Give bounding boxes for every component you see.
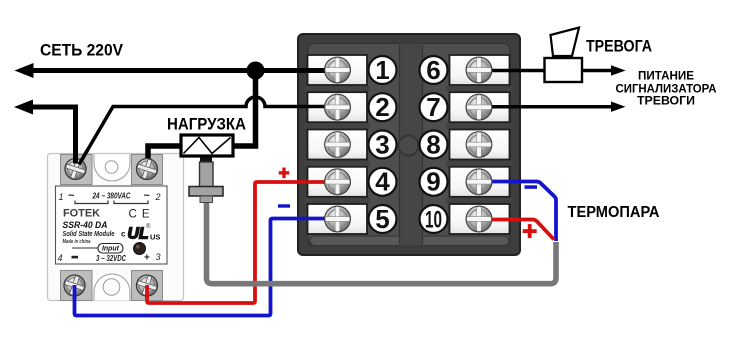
wire end overlay SSR pin4 blue [73, 285, 77, 299]
pin number 1 [369, 55, 397, 85]
svg-text:1: 1 [59, 192, 64, 202]
svg-text:10: 10 [425, 206, 442, 233]
svg-text:US: US [150, 233, 160, 242]
label ПИТАНИЕ СИГНАЛИЗАТОРА ТРЕВОГИ [616, 71, 717, 108]
svg-text:НАГРУЗКА: НАГРУЗКА [167, 116, 246, 134]
screws over stubs [325, 57, 492, 232]
wire: mains L horizontal [26, 68, 311, 73]
svg-text:3 ~ 32VDC: 3 ~ 32VDC [96, 254, 126, 263]
arrow mains N [14, 100, 33, 115]
wire stub terminal 1 [306, 68, 336, 73]
pin number 7 [420, 92, 448, 122]
svg-text:c: c [121, 230, 126, 239]
svg-text:SSR-40 DA: SSR-40 DA [63, 220, 108, 231]
pin number 10 [420, 205, 448, 233]
thermocouple probe [189, 158, 223, 203]
svg-text:9: 9 [426, 167, 440, 197]
center divider [400, 44, 423, 246]
svg-text:1: 1 [375, 55, 389, 85]
wire: thermocouple gray cable [207, 198, 557, 284]
terminal plate 8 [450, 130, 510, 160]
svg-text:3: 3 [156, 252, 161, 262]
pin number 3 [369, 129, 397, 159]
wire: red SSR pin3 to terminal 4 [147, 182, 311, 303]
svg-text:+: + [144, 253, 150, 264]
svg-text:СИГНАЛИЗАТОРА: СИГНАЛИЗАТОРА [616, 84, 717, 96]
pin number 6 [420, 55, 448, 85]
wire: mains N to SSR pin1 [26, 107, 76, 166]
svg-text:7: 7 [426, 92, 440, 122]
svg-text:~: ~ [68, 190, 75, 202]
arrow mains L [15, 63, 34, 78]
wire: thermocouple red to terminal 10 [509, 220, 554, 240]
wire stub terminal 9 [481, 180, 511, 184]
terminal plate 9 [450, 167, 510, 197]
terminal plate 1 [308, 55, 368, 85]
bottom groove [310, 236, 509, 246]
terminal plate 7 [450, 92, 510, 122]
pin number 4 [369, 167, 397, 197]
terminal plate 2 [308, 92, 368, 122]
svg-text:4: 4 [58, 253, 63, 263]
terminal block body [298, 34, 520, 255]
junction dot node [247, 62, 265, 80]
SSR U1 body [48, 154, 184, 301]
svg-text:2: 2 [375, 92, 389, 122]
label + at terminal 10 [523, 224, 537, 238]
svg-text:2: 2 [155, 192, 161, 202]
wire stub terminal 10 [481, 218, 511, 222]
wire: dot to load [232, 71, 258, 147]
svg-text:ПИТАНИЕ: ПИТАНИЕ [638, 71, 694, 83]
svg-text:24 ~ 380VAC: 24 ~ 380VAC [92, 192, 131, 201]
SSR screws pins 1,2,3,4 [63, 157, 88, 182]
wire stub terminal 6 [480, 69, 511, 73]
svg-text:ТЕРМОПАРА: ТЕРМОПАРА [568, 204, 660, 221]
svg-text:СЕТЬ 220V: СЕТЬ 220V [40, 41, 124, 60]
svg-text:3: 3 [375, 129, 389, 159]
wire end overlay SSR pin3 red [145, 285, 149, 299]
svg-text:ТРЕВОГА: ТРЕВОГА [586, 38, 652, 56]
terminal plate 5 [308, 204, 368, 234]
svg-text:Input: Input [102, 244, 119, 253]
wire: load to SSR pin2 [148, 146, 182, 166]
wire: terminal 6 to alarm [506, 69, 612, 73]
center ring [399, 136, 419, 156]
wire stub terminal 4 [307, 180, 336, 184]
svg-text:5: 5 [375, 204, 389, 234]
pin number 5 [369, 204, 397, 234]
wire stub terminal 2 [306, 105, 336, 109]
SSR U1 label panel [56, 186, 168, 264]
wire: blue SSR pin4 to terminal 5 [75, 219, 312, 316]
label - at terminal 5 [278, 204, 290, 207]
wire stub terminal 7 [480, 105, 511, 109]
wire stub terminal 5 [307, 217, 336, 221]
svg-text:4: 4 [375, 167, 390, 197]
wire: terminal 2 to SSR pin1 with hop [77, 97, 311, 168]
terminal plate 6 [450, 55, 510, 85]
load R (НАГРУЗКА) box [181, 135, 233, 156]
terminal plate 4 [308, 167, 368, 197]
svg-text:6: 6 [426, 55, 440, 85]
svg-text:Made in china: Made in china [63, 239, 91, 245]
svg-text:FOTEK: FOTEK [63, 208, 100, 220]
label + at terminal 4 [279, 168, 290, 179]
wire: thermocouple blue to terminal 9 [509, 182, 556, 242]
pin number 2 [369, 92, 397, 122]
alarm switch S1 [545, 28, 583, 83]
svg-text:ТРЕВОГИ: ТРЕВОГИ [637, 96, 695, 108]
wire: terminal 7 to alarm [506, 105, 612, 109]
arrow alarm supply 2 [611, 102, 626, 112]
svg-text:8: 8 [426, 129, 440, 159]
pin number 8 [420, 129, 448, 159]
terminal plate 10 [450, 204, 510, 234]
pin number 9 [420, 167, 448, 197]
arrow alarm supply [611, 65, 626, 75]
plate wells shading [304, 86, 513, 203]
wire end overlay SSR pin1 [73, 149, 78, 164]
svg-text:®: ® [146, 223, 151, 230]
svg-text:Solid State Module: Solid State Module [63, 231, 115, 238]
label - at terminal 9 [525, 185, 538, 189]
svg-text:~: ~ [144, 190, 151, 202]
terminal plate 3 [308, 130, 368, 160]
